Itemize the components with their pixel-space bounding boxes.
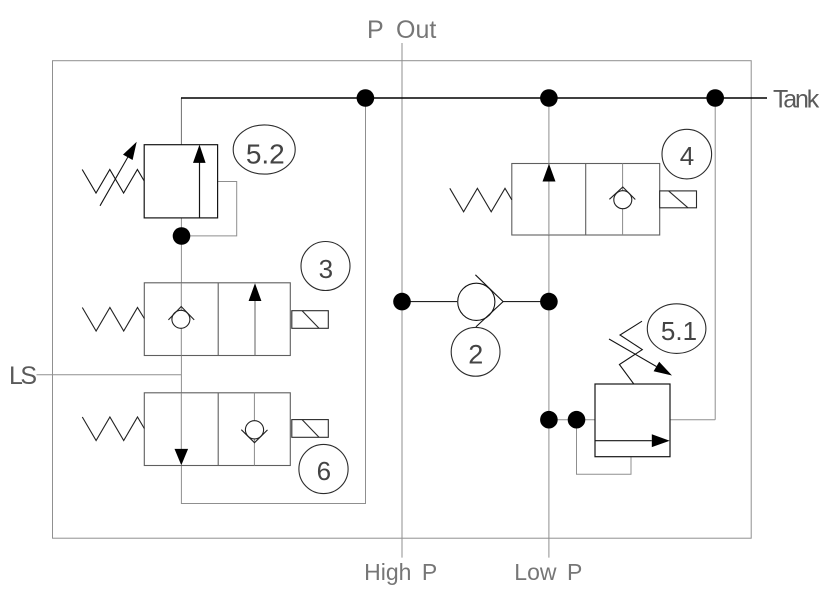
valve 6 spring <box>82 417 144 441</box>
valve 6 solenoid <box>292 420 329 438</box>
svg-text:LS: LS <box>9 362 36 390</box>
balloon 2 <box>451 327 500 376</box>
valve 3 check valve position <box>168 283 194 356</box>
valve 4 solenoid <box>660 191 697 208</box>
wire left net x=181 with return loop to tank <box>181 98 365 504</box>
balloon 5.2 <box>233 125 295 174</box>
svg-text:5.1: 5.1 <box>661 316 697 346</box>
svg-text:Low: Low <box>514 559 557 585</box>
port label Tank <box>773 86 820 114</box>
node check valve 2 right junction <box>540 293 558 311</box>
valve 6 open position arrow (down) <box>175 393 189 466</box>
svg-text:P: P <box>422 559 437 585</box>
valve 3 open position arrow <box>249 283 262 355</box>
balloon 5.1 <box>647 304 706 354</box>
valve 5.2 adjustment arrow <box>100 142 137 206</box>
node check valve 2 left junction <box>393 293 411 311</box>
wire tank drop to valve 5.1 <box>714 98 716 420</box>
port label High P <box>364 559 437 585</box>
balloon 6 <box>299 444 348 493</box>
svg-text:3: 3 <box>319 254 333 284</box>
wire pilot loop of valve 5.2 <box>182 182 237 236</box>
directional valve 6 body <box>144 393 290 466</box>
port label Low P <box>514 559 582 585</box>
valve 4 open position arrow <box>543 164 556 236</box>
svg-text:High: High <box>364 559 411 585</box>
valve 6 check valve position <box>241 393 267 466</box>
relief valve 5.2 body <box>144 145 217 218</box>
wire Low-P line <box>548 98 550 558</box>
svg-text:4: 4 <box>680 141 694 171</box>
directional valve 3 body <box>144 283 290 356</box>
wire valve 5.1 inlet from Low P <box>549 419 595 421</box>
valve 3 spring <box>82 308 144 332</box>
valve 4 spring <box>450 188 512 212</box>
valve 5.2 spring <box>82 170 144 194</box>
node valve 5.1 pilot junction <box>568 411 586 429</box>
node valve 5.2 outlet junction <box>173 227 191 245</box>
balloon 4 <box>662 129 712 179</box>
node valve 5.1 inlet junction <box>540 411 558 429</box>
svg-text:5.2: 5.2 <box>246 138 285 169</box>
wire valve 5.1 outlet to tank riser <box>670 419 715 421</box>
directional valve 4 body <box>512 164 660 236</box>
node tank/loop junction <box>357 89 375 107</box>
node tank/Low P junction <box>540 89 558 107</box>
wire tank rail <box>181 97 767 99</box>
wire pilot loop of valve 5.1 <box>577 420 632 475</box>
port label P Out <box>367 16 436 44</box>
node tank/5.1 riser junction <box>706 89 724 107</box>
svg-text:P: P <box>367 16 384 44</box>
valve 5.1 flow arrow <box>595 434 670 447</box>
check valve 2 <box>402 275 549 327</box>
valve 3 solenoid <box>292 311 329 329</box>
svg-text:Out: Out <box>396 16 436 44</box>
port label LS <box>9 362 36 390</box>
valve 5.2 flow arrow <box>193 145 206 218</box>
svg-text:2: 2 <box>468 339 483 369</box>
balloon 3 <box>301 242 350 291</box>
svg-text:P: P <box>567 559 582 585</box>
valve 5.1 adjustment arrow <box>609 339 672 376</box>
svg-text:6: 6 <box>317 456 331 486</box>
relief valve 5.1 body <box>595 384 670 457</box>
wire LS line <box>37 374 182 376</box>
wire P-line (P Out to High P) <box>401 43 403 558</box>
valve 4 check valve position <box>609 164 635 236</box>
valve 5.1 spring <box>619 321 642 384</box>
svg-text:Tank: Tank <box>773 86 820 114</box>
manifold border <box>53 61 752 539</box>
